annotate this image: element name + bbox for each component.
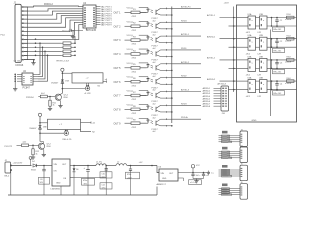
svg-text:4n2: 4n2	[153, 90, 156, 92]
wire unit 3 inputs	[229, 60, 249, 69]
ground Q2 emitter	[42, 150, 46, 157]
svg-text:1N4007: 1N4007	[29, 128, 37, 130]
node VCC row 6	[127, 77, 149, 79]
svg-text:U2B: U2B	[259, 35, 264, 37]
ground R11	[48, 106, 52, 110]
svg-text:8550: 8550	[47, 146, 51, 148]
svg-text:REL-4.2D: REL-4.2D	[63, 139, 72, 141]
wire to U6	[157, 166, 159, 173]
svg-text:A/TXD-2: A/TXD-2	[181, 61, 190, 64]
svg-text:OUT 6: OUT 6	[114, 81, 122, 84]
connector J6	[240, 182, 248, 199]
node +12V	[12, 163, 32, 166]
connector J2 power in	[5, 160, 12, 178]
resistor R6 470	[131, 78, 147, 87]
svg-text:4-k2: 4-k2	[23, 142, 27, 144]
svg-text:1N8: 1N8	[65, 80, 68, 82]
svg-text:RXD4: RXD4	[181, 20, 187, 22]
svg-text:u16: u16	[206, 175, 209, 177]
node RXD-A	[172, 116, 201, 119]
svg-text:u-100R: u-100R	[285, 40, 292, 42]
svg-text:SS34: SS34	[31, 170, 36, 172]
svg-text:J5: J5	[241, 164, 243, 166]
svg-text:A/TXD-2: A/TXD-2	[207, 57, 216, 60]
wire unit 4 inputs	[229, 81, 249, 90]
IC U2 PC847	[14, 71, 38, 90]
svg-text:AMS1117: AMS1117	[157, 183, 167, 186]
optocoupler U18 PC817	[152, 104, 167, 119]
wire opto row 5 outputs	[167, 64, 173, 71]
svg-text:A/RXD-1: A/RXD-1	[207, 35, 216, 38]
svg-text:A/RXD-2: A/RXD-2	[207, 78, 216, 81]
node A/TXD-2	[172, 61, 201, 64]
node VCC row 7	[127, 91, 149, 93]
wire bus RP rows to U2 inputs	[38, 42, 48, 81]
svg-text:RXD3: RXD3	[181, 103, 187, 105]
svg-text:470u: 470u	[102, 187, 106, 189]
node OUT5	[114, 67, 132, 70]
LED D24 opto input	[140, 49, 153, 54]
svg-text:4n2: 4n2	[153, 117, 156, 119]
resistor R7 470	[131, 92, 147, 101]
node OUT2	[114, 25, 132, 28]
svg-text:P/OT9: P/OT9	[106, 25, 113, 27]
wire opto row 6 outputs	[167, 78, 173, 85]
resistor R23 100R	[285, 57, 294, 64]
LED D28 opto input	[140, 104, 153, 109]
svg-text:A/RXD-6: A/RXD-6	[203, 100, 210, 103]
wire buck output	[73, 165, 96, 167]
svg-text:OUT 8: OUT 8	[114, 108, 122, 111]
svg-text:RXD-A: RXD-A	[181, 116, 188, 119]
svg-text:u-100R: u-100R	[285, 83, 292, 85]
svg-text:U1A: U1A	[248, 13, 253, 16]
capacitor C11 470u	[82, 166, 95, 196]
svg-text:C8: C8	[40, 179, 42, 181]
svg-text:4n2: 4n2	[153, 34, 156, 36]
wire bus J10 to units	[233, 7, 235, 93]
wire emitter bus	[171, 7, 173, 124]
svg-text:VIN: VIN	[54, 164, 58, 166]
svg-text:OUT 9: OUT 9	[114, 122, 122, 125]
capacitor C7 decoupling U4	[62, 29, 83, 39]
svg-text:GND: GND	[252, 120, 257, 122]
svg-text:L1 47u: L1 47u	[96, 162, 102, 164]
node VCC row 2	[127, 21, 149, 23]
svg-text:ROD4-2: ROD4-2	[44, 3, 53, 6]
svg-text:C.u: C.u	[211, 172, 214, 174]
wire J1 pin1 to U4 pin1	[24, 3, 83, 7]
node OUT8	[114, 108, 132, 111]
node A/RXD-2	[207, 78, 237, 82]
node OUT1	[114, 12, 132, 15]
connector J10	[203, 82, 229, 115]
wire unit 1 link	[256, 18, 260, 27]
node VCC row 8	[127, 104, 149, 106]
capacitor C13 470u	[126, 165, 140, 195]
resistor R9 470	[131, 120, 147, 129]
transistor Q2 8550	[38, 142, 50, 150]
IC U2A	[246, 34, 256, 55]
ground U6 outputs	[189, 179, 204, 185]
LED D21 opto input	[140, 8, 153, 13]
wire bus J1 pins 2-9 staircase to U4	[24, 9, 83, 40]
capacitor C23	[273, 60, 285, 74]
node VCC input	[29, 157, 32, 166]
node VCC row 5	[127, 63, 149, 65]
wire opto row 2 outputs	[167, 22, 173, 29]
resistor R2 470	[131, 23, 147, 32]
capacitor C8 input	[39, 166, 50, 196]
diode D1 1N4007	[51, 80, 69, 85]
node OUT3	[114, 39, 132, 42]
resistor R22 100R	[285, 35, 294, 42]
IC U6 AMS1117	[157, 167, 211, 186]
connector J5	[240, 164, 248, 181]
resistor R1 470	[131, 9, 147, 18]
node OUT4	[114, 53, 132, 56]
resistor R21 100R	[285, 14, 294, 21]
svg-text:A/TXD-3: A/TXD-3	[181, 89, 190, 92]
capacitor C22	[273, 39, 285, 53]
resistor R9 10k	[40, 93, 55, 98]
diode network D12	[219, 147, 241, 159]
node RXD4	[172, 20, 201, 22]
node A/TXD-P4	[172, 5, 201, 8]
svg-text:C10: C10	[102, 174, 105, 176]
node P2-6	[1, 35, 6, 37]
svg-text:U1B: U1B	[259, 14, 264, 16]
svg-text:C12: C12	[102, 185, 105, 187]
svg-text:A/TXD-P4: A/TXD-P4	[181, 5, 191, 8]
svg-text:+5V: +5V	[139, 162, 143, 164]
svg-text:VCC(+): VCC(+)	[127, 49, 134, 51]
svg-text:RXD1: RXD1	[181, 48, 187, 50]
svg-text:4n2: 4n2	[153, 48, 156, 50]
svg-text:U4A: U4A	[248, 77, 253, 80]
LED D29 opto input	[140, 118, 153, 123]
wire node L1-L2	[105, 165, 116, 167]
svg-text:A/RXD-1: A/RXD-1	[203, 87, 210, 90]
svg-text:1N8: 1N8	[43, 127, 46, 129]
svg-text:LM2596S: LM2596S	[51, 189, 61, 191]
svg-text:U4B: U4B	[259, 78, 264, 80]
wire unit 3 link	[256, 60, 260, 69]
diode network D13	[219, 165, 241, 177]
svg-text:+8C2: +8C2	[246, 96, 251, 98]
node A/RXD-1	[207, 35, 237, 39]
svg-text:ERu-16C: ERu-16C	[274, 72, 282, 74]
ground Q1 emitter	[58, 101, 62, 108]
optocoupler U16 PC817	[152, 77, 167, 92]
svg-text:470u: 470u	[83, 180, 87, 182]
resistor R11 1k	[49, 97, 56, 107]
svg-text:+5V2: +5V2	[224, 3, 230, 5]
connector J1 CON16	[14, 1, 28, 66]
wire unit 2 outputs	[267, 38, 297, 48]
svg-text:VCC(+): VCC(+)	[127, 118, 134, 120]
node VCC row 9	[127, 118, 149, 120]
svg-text:+8C2: +8C2	[246, 32, 251, 34]
wire opto row 8 outputs	[167, 105, 173, 112]
svg-text:OUT 3: OUT 3	[114, 39, 122, 42]
svg-text:VCC(+): VCC(+)	[127, 77, 134, 79]
node RXD2	[172, 76, 201, 78]
node VCC relay K2	[38, 113, 41, 141]
wire unit 1 outputs	[267, 17, 297, 27]
node A/TXD-1	[172, 33, 201, 36]
LED D26 opto input	[140, 77, 153, 82]
svg-text:+8C2: +8C2	[246, 75, 251, 77]
IC U3A	[246, 55, 256, 76]
svg-text:103: 103	[102, 176, 105, 178]
node RXD1	[172, 48, 201, 50]
connector J4	[240, 146, 248, 163]
wire unit 1 inputs	[229, 18, 249, 27]
IC U4B	[258, 78, 268, 98]
svg-text:uC+1u6: uC+1u6	[190, 182, 196, 184]
svg-text:C3: C3	[280, 62, 282, 64]
svg-text:1N4007: 1N4007	[51, 83, 59, 85]
optocoupler U17 PC817	[152, 91, 167, 106]
svg-text:U3B: U3B	[259, 56, 264, 58]
ground below J1	[24, 60, 36, 65]
svg-text:J6: J6	[241, 182, 243, 184]
diode D4 1N5822	[31, 161, 52, 171]
diode network D11	[219, 131, 241, 143]
svg-text:u-100R: u-100R	[285, 62, 292, 64]
svg-text:+12V-18V: +12V-18V	[13, 163, 23, 165]
ground R12	[31, 155, 35, 159]
svg-text:A/RXD-3: A/RXD-3	[203, 92, 210, 95]
LED D22 opto input	[140, 21, 153, 26]
wire opto row 3 outputs	[167, 36, 173, 43]
svg-text:N2: N2	[98, 86, 100, 88]
svg-text:RXD2: RXD2	[181, 76, 187, 78]
optocoupler U15 PC817	[152, 63, 167, 78]
node VCC row 4	[127, 49, 149, 51]
svg-text:OUT 1: OUT 1	[114, 12, 122, 15]
wire opto row 9 outputs	[167, 119, 173, 126]
svg-text:QT-4: QT-4	[64, 94, 68, 96]
wire opto row 4 outputs	[167, 50, 173, 57]
capacitor C10 103	[100, 166, 112, 196]
wires J1 pins 10-13 to RP1	[24, 42, 61, 56]
node OUT7	[114, 95, 132, 98]
svg-text:A/RXD-8: A/RXD-8	[203, 105, 210, 108]
svg-text:1k: 1k	[36, 153, 38, 155]
svg-text:OUT 7: OUT 7	[114, 95, 122, 98]
svg-text:A/TXD-1: A/TXD-1	[181, 33, 190, 36]
svg-text:C2: C2	[280, 41, 282, 43]
node +5V	[127, 162, 157, 166]
svg-text:VCC(+): VCC(+)	[127, 104, 134, 106]
svg-text:74HC245: 74HC245	[86, 29, 97, 32]
resistor network RP1 4.7k	[57, 37, 76, 63]
svg-text:ERu-16C: ERu-16C	[274, 93, 282, 95]
svg-text:4n2: 4n2	[153, 62, 156, 64]
svg-text:A/RXD-5: A/RXD-5	[203, 97, 210, 100]
svg-text:RP-R L2 4L7: RP-R L2 4L7	[57, 61, 70, 63]
resistor R5 470	[131, 64, 147, 73]
svg-text:VCC: VCC	[196, 165, 201, 167]
svg-text:4-k2: 4-k2	[41, 93, 45, 95]
svg-text:C4: C4	[280, 84, 282, 86]
connector J3	[240, 130, 248, 147]
IC U4 74HC245	[83, 2, 112, 32]
node VCC relay K1	[61, 68, 64, 93]
wire unit 3 outputs	[267, 59, 297, 69]
svg-text:R3-8: R3-8	[287, 57, 291, 59]
capacitor C16	[206, 171, 214, 176]
svg-text:4n2: 4n2	[153, 20, 156, 22]
LED D27 opto input	[140, 91, 153, 96]
svg-text:GND: GND	[56, 183, 61, 185]
svg-text:A/TXD-1: A/TXD-1	[207, 14, 216, 17]
svg-text:U2A: U2A	[248, 34, 253, 37]
wire J1 pin14	[24, 38, 36, 60]
svg-text:GND: GND	[162, 178, 167, 180]
optocoupler U19 PC817	[152, 118, 167, 133]
svg-text:R2-8: R2-8	[287, 35, 291, 37]
node VCC output	[191, 165, 200, 174]
svg-text:ERu-16C: ERu-16C	[274, 50, 282, 52]
svg-text:VIN: VIN	[161, 173, 165, 175]
node P/RXD4	[26, 97, 40, 100]
svg-text:A/RXD-4: A/RXD-4	[203, 95, 210, 98]
svg-text:OUT 4: OUT 4	[114, 53, 122, 56]
svg-text:U3A: U3A	[248, 55, 253, 58]
transistor Q1 8550	[55, 93, 68, 101]
svg-text:VCC(+): VCC(+)	[127, 7, 134, 9]
IC U3B	[258, 56, 268, 76]
svg-text:8550: 8550	[64, 97, 68, 99]
svg-text:4n2: 4n2	[153, 104, 156, 106]
diode D6 SS34	[73, 166, 79, 196]
resistor R4 470	[131, 50, 147, 59]
svg-text:OUT 2: OUT 2	[114, 25, 122, 28]
IC U2B	[258, 35, 268, 55]
resistor R10 10k	[22, 142, 39, 147]
resistor R12 1k	[32, 145, 39, 155]
svg-text:ERu-16C: ERu-16C	[274, 29, 282, 31]
svg-text:QT-2: QT-2	[47, 143, 51, 145]
relay K2	[40, 119, 95, 141]
svg-text:PC847: PC847	[23, 86, 31, 89]
svg-text:4n2: 4n2	[153, 76, 156, 78]
svg-text:VCC(+): VCC(+)	[127, 91, 134, 93]
svg-text:1k: 1k	[53, 105, 55, 107]
wire unit 2 link	[256, 39, 260, 48]
wire opto row 7 outputs	[167, 92, 173, 99]
svg-text:J3: J3	[241, 130, 243, 132]
svg-text:+10V: +10V	[127, 177, 132, 179]
capacitor C9 label	[14, 61, 22, 63]
ground U2	[13, 87, 17, 91]
wire FB	[73, 166, 106, 178]
IC U5 LM2596	[51, 159, 75, 195]
node VCC row 1	[127, 7, 149, 9]
node A/TXD-2	[207, 57, 237, 61]
inductor L2	[116, 162, 127, 166]
svg-text:VCC(+): VCC(+)	[127, 63, 134, 65]
optocoupler U12 PC817	[152, 21, 167, 36]
wire opto row 1 outputs	[167, 8, 173, 15]
svg-text:CON16: CON16	[15, 64, 24, 67]
wire unit 2 inputs	[229, 39, 249, 48]
resistor R3 470	[131, 37, 147, 46]
svg-text:R4-8: R4-8	[287, 78, 291, 80]
svg-text:+8C2: +8C2	[246, 53, 251, 55]
resistor R8 470	[131, 106, 147, 115]
svg-text:104: 104	[196, 175, 199, 177]
IC U1B	[258, 14, 268, 34]
wire ground rail	[8, 171, 157, 195]
svg-text:A/RXD-2: A/RXD-2	[203, 90, 210, 93]
diode network D14	[219, 184, 241, 196]
capacitor C14	[191, 173, 198, 179]
resistor R24 100R	[285, 78, 294, 85]
capacitor C21	[273, 18, 285, 32]
IC U1A	[246, 13, 256, 34]
svg-text:C1: C1	[280, 20, 282, 22]
svg-text:A/TXD2-8: A/TXD2-8	[218, 82, 226, 85]
svg-text:+8 L2R: +8 L2R	[84, 93, 91, 95]
wire unit 4 outputs	[267, 80, 297, 90]
node OUT6	[114, 81, 132, 84]
svg-text:OUT 5: OUT 5	[114, 67, 122, 70]
svg-text:P/OUT2: P/OUT2	[5, 146, 13, 148]
svg-text:VCC(+): VCC(+)	[127, 21, 134, 23]
optocoupler U13 PC817	[152, 35, 167, 50]
IC U4A	[246, 77, 256, 98]
node OUT9	[114, 122, 132, 125]
capacitor C24	[273, 81, 285, 95]
wire internal rail	[270, 30, 272, 117]
svg-text:A/RXD-7: A/RXD-7	[203, 102, 210, 105]
optocoupler U14 PC817	[152, 49, 167, 64]
svg-text:C9 104: C9 104	[14, 61, 22, 63]
node A/TXD-1	[207, 14, 237, 18]
wire unit 4 link	[256, 81, 260, 90]
svg-text:D6: D6	[76, 169, 78, 171]
right module box	[224, 3, 297, 122]
node P/OUT2	[5, 145, 22, 148]
LED D23 opto input	[140, 35, 153, 40]
svg-text:P/RXD4: P/RXD4	[26, 97, 34, 99]
svg-text:4n2: 4n2	[153, 131, 156, 133]
svg-text:470u: 470u	[127, 174, 131, 176]
capacitor C15	[199, 172, 209, 179]
svg-text:N2: N2	[92, 132, 94, 134]
LED D25 opto input	[140, 63, 153, 68]
svg-text:R1-8: R1-8	[287, 14, 291, 16]
svg-text:J4: J4	[241, 146, 243, 148]
svg-text:VCC(+): VCC(+)	[127, 35, 134, 37]
node VCC row 3	[127, 35, 149, 37]
inductor L1	[96, 162, 106, 166]
node A/TXD-3	[172, 89, 201, 92]
svg-text:u-100R: u-100R	[285, 19, 292, 21]
diode D2 1N4007	[29, 126, 46, 130]
node RXD3	[172, 103, 201, 105]
optocoupler U11 PC817	[152, 8, 167, 23]
